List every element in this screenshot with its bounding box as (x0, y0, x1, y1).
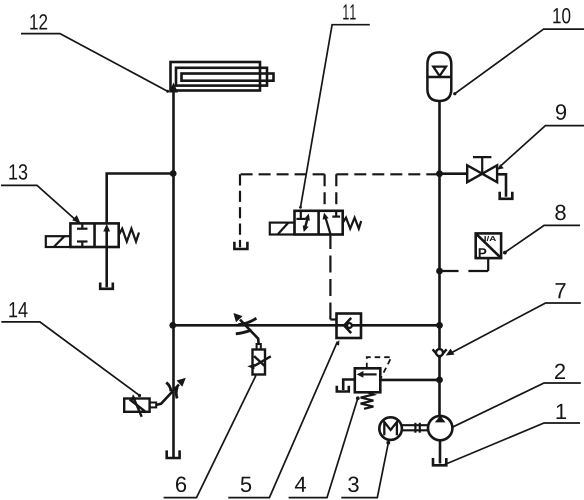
pilot operated check valve 5 box (337, 314, 362, 339)
valve 13 solenoid (46, 236, 71, 247)
label 1 with leader (445, 404, 581, 465)
pressure transducer 8 (476, 233, 501, 258)
label 6 with leader (164, 376, 256, 498)
tank under valve 13 (100, 283, 113, 289)
node J4: junction right line / shutoff valve branch (436, 170, 443, 177)
motor 3 circle (379, 417, 402, 440)
label 4 with leader (289, 396, 360, 497)
label 14 with leader (1, 302, 141, 397)
label 7 with leader (446, 283, 581, 355)
throttle 14 actuator box (124, 399, 149, 412)
check valve 7 on right line (433, 349, 447, 357)
throttle 14 arcs on left line (166, 383, 177, 399)
cooler 12 (heat exchanger plate stack) (171, 62, 274, 91)
throttle 6 actuator box (253, 350, 266, 375)
valve 11 body (3/2 pilot valve) (295, 211, 343, 235)
valve 11 flow arrow (right square) (323, 213, 331, 235)
relief valve 4 body (355, 368, 381, 392)
valve 11 blocked port T (right square) (332, 211, 340, 217)
node J6: junction right line / relief valve branch (436, 377, 443, 384)
pilot line: tank branch (dashed) to valve 11 left port (240, 174, 325, 247)
label 5 with leader (228, 340, 339, 498)
throttle 14 adjustment arrow (156, 378, 186, 405)
wire: right main vertical line (accumulator to pump) (438, 101, 441, 416)
throttle 6 actuator cross stroke (254, 356, 265, 366)
label 8 with leader (503, 205, 580, 255)
shaft coupling motor-pump (402, 423, 428, 433)
accumulator 10 (427, 52, 451, 101)
throttle 6 arcs on mid line (236, 318, 257, 334)
wire: to shutoff valve 9 (440, 172, 469, 175)
throttle 6 actuator arrow stroke (247, 356, 270, 369)
tank under pump (433, 458, 446, 465)
label 9 with leader (497, 104, 584, 170)
valve 11 double arrow (left square) (303, 214, 310, 233)
node J3: junction right line / mid line (436, 322, 443, 329)
valve 11 spring (343, 218, 362, 229)
wire: relief valve outlet to main line (380, 379, 439, 382)
wire: mid horizontal line (173, 324, 440, 327)
wire: pump suction to tank (439, 440, 442, 463)
label 2 with leader (452, 364, 580, 428)
label 10 with leader (453, 8, 584, 95)
relief valve 4 spring (361, 392, 374, 409)
throttle 14 actuator cross stroke (130, 400, 145, 412)
valve 13 blocked port T (bottom) (77, 242, 88, 248)
node J2: junction left line / mid horizontal line (169, 322, 176, 329)
wire: valve 13 bottom drain (105, 247, 108, 287)
throttle 6 adjustment arrow (233, 313, 258, 344)
wire: valve 9 drain (497, 174, 506, 197)
node J5: junction right line / pressure transducer branch (436, 268, 443, 275)
flow arrow into cooler (169, 83, 178, 93)
pump 2 circle (428, 416, 452, 440)
wire: left line tank (167, 450, 180, 458)
label 11 with leader (299, 4, 370, 208)
pump 2 outlet triangle (435, 416, 446, 423)
pilot line: valve 11 bottom port to check valve 5 (dashed) (330, 235, 336, 320)
shutoff valve 9 (globe valve) (467, 157, 497, 182)
transducer 8 text I/A (484, 236, 496, 241)
check valve 5 poppet (344, 318, 352, 333)
node J1: junction left line / valve 13 branch (170, 170, 177, 177)
valve 13 flow arrow (right square) (103, 224, 110, 247)
motor 3 letter M (384, 422, 397, 435)
label 3 with leader (341, 441, 390, 498)
valve 11 solenoid (270, 223, 295, 235)
label 13 with leader (1, 164, 81, 223)
wire: dashed branch to transducer 8 (440, 258, 489, 271)
valve 13 spring (119, 229, 139, 242)
wire: valve 13 top branch (107, 174, 174, 224)
pilot line: supply branch (dashed) from main line to valve 11 right port (336, 174, 439, 211)
valve 13 body (2/2 solenoid valve) (70, 223, 118, 247)
tank at pilot drain (234, 242, 247, 249)
tank at valve 9 drain (500, 192, 513, 199)
transducer 8 text P (479, 248, 487, 257)
throttle 14 actuator neck (150, 403, 157, 408)
wire: relief valve 4 tank line (343, 380, 355, 391)
throttle 6 actuator neck (257, 344, 261, 350)
valve 13 blocked port T (top) (77, 223, 88, 228)
throttle 14 actuator arrow stroke (131, 394, 142, 417)
label 12 with leader (21, 14, 169, 93)
relief valve 4 pilot line (dashed) (367, 357, 392, 378)
relief valve 4 internal arrow (357, 371, 377, 378)
tank at relief valve 4 (337, 386, 349, 392)
valve 11 blocked port T (left square) (296, 211, 305, 219)
wire: left main vertical line (cooler to tank) (172, 91, 175, 459)
